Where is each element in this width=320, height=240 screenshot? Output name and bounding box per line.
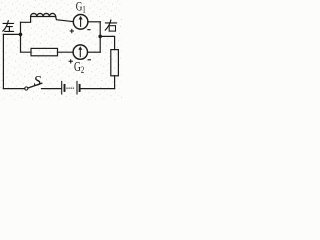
wire node to middle row: [21, 34, 32, 52]
galvanometer G1: [73, 14, 88, 29]
battery cell 1 long plate: [61, 81, 63, 94]
switch S blade: [28, 83, 42, 88]
wire R1 to G2: [58, 51, 74, 53]
label zuo (left): [3, 21, 14, 32]
node left junction: [19, 33, 23, 37]
wire left terminal vertical: [20, 22, 22, 34]
wire G2 to right node: [88, 51, 101, 53]
battery cell 2 long plate: [76, 81, 78, 94]
label G2 plus: [69, 59, 73, 63]
wire right vertical down to node: [99, 22, 101, 52]
wire switch to battery: [42, 88, 61, 90]
resistor R2 (right box): [111, 50, 119, 76]
G2 needle arrow: [78, 46, 82, 57]
wire bottom rail left: [3, 88, 24, 90]
switch S pivot circle: [25, 87, 28, 90]
wire bottom rail right: [80, 88, 114, 90]
inductor L: [31, 13, 56, 16]
label G1 minus: [87, 29, 90, 31]
galvanometer G2: [73, 45, 87, 59]
wire left terminal horizontal: [3, 33, 20, 35]
wire left rail: [2, 34, 4, 88]
battery cell 2 short plate: [79, 85, 81, 91]
wire R2 to bottom rail: [114, 76, 116, 89]
svg-text:S: S: [34, 73, 42, 89]
node right junction: [98, 35, 102, 39]
wire G1 to right corner: [88, 21, 100, 23]
G1 needle arrow: [79, 16, 83, 27]
label G2 minus: [88, 59, 91, 61]
label G1 plus: [70, 29, 74, 33]
wire right node branch to R2: [100, 36, 114, 49]
wire top-left horizontal to coil: [21, 16, 31, 22]
label you (right): [105, 20, 117, 31]
wire coil to G1: [56, 16, 74, 21]
battery cell 1 short plate: [64, 85, 66, 91]
battery dots: [66, 87, 74, 88]
resistor R1 (middle box): [31, 48, 58, 55]
